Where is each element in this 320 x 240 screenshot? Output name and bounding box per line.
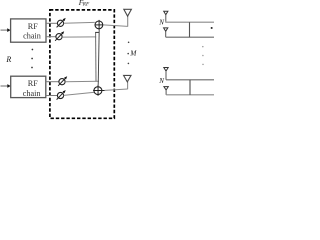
adder S2 [93, 85, 105, 96]
antenna RT2 stem [165, 31, 167, 37]
antenna 1 stem [127, 16, 129, 27]
antenna 2 stem [127, 82, 129, 90]
ellipsis dots right [202, 46, 204, 48]
phase shifter PS3 [58, 76, 67, 86]
antenna RT1 triangle [164, 11, 168, 15]
svg-text:chain: chain [23, 32, 41, 41]
svg-text:R: R [5, 55, 11, 64]
divider bottom group [189, 80, 191, 95]
arrowhead into RF chain 1 [7, 28, 10, 32]
wire RF1 to PS1 [46, 22, 57, 24]
divider top group [189, 22, 191, 37]
antenna RB1 triangle [164, 68, 168, 72]
vertical wire A [95, 33, 97, 82]
svg-text:RF: RF [28, 79, 38, 88]
rail 2 [166, 36, 214, 38]
wire PS2 to vertical A [62, 36, 96, 38]
jog wire A to B [95, 31, 99, 33]
wire RF2 to PS4 [46, 95, 58, 97]
antenna RB1 stem [165, 71, 167, 80]
antenna RT1 stem [165, 15, 167, 22]
wire PS1 to adder S1 [64, 21, 95, 24]
RF chain box 1 [11, 19, 46, 42]
wire PS4 to adder S2 [64, 92, 95, 95]
wire PS3 to vertical B [65, 80, 99, 83]
dashed box F_RF [50, 10, 114, 118]
phase shifter PS2 [55, 31, 64, 41]
adder S1 [95, 20, 104, 30]
phase shifter PS4 [57, 90, 66, 100]
svg-text:N: N [158, 19, 164, 27]
ellipsis dots between RF chains [32, 49, 34, 51]
wire S1 to antenna 1 [103, 25, 128, 27]
rail 4 [166, 94, 214, 96]
wire RF1 to PS2 [46, 36, 56, 38]
wire input arrow line to RF chain 1 [1, 29, 9, 31]
svg-text:RF: RF [82, 2, 90, 8]
antenna RB2 triangle [164, 87, 168, 90]
wire input arrow line to RF chain 2 [1, 85, 9, 87]
vertical wire B [98, 30, 99, 85]
phase shifter PS1 [57, 18, 66, 28]
svg-text:M: M [129, 49, 137, 58]
rail 3 [166, 79, 214, 81]
svg-text:RF: RF [28, 22, 38, 31]
svg-text:N: N [158, 77, 164, 85]
rail 1 [166, 21, 214, 24]
antenna RT2 triangle [164, 28, 168, 31]
wire RF2 to PS3 [46, 81, 59, 83]
antenna RB2 stem [165, 90, 167, 95]
svg-text:chain: chain [23, 89, 41, 98]
antenna 1 triangle [124, 9, 132, 16]
RF chain box 2 [11, 76, 46, 97]
antenna 2 triangle [124, 75, 131, 82]
ellipsis dots antennas M [128, 42, 130, 44]
small mark right edge [211, 27, 213, 29]
wire S2 to antenna 2 [105, 89, 128, 90]
arrowhead into RF chain 2 [7, 84, 10, 88]
